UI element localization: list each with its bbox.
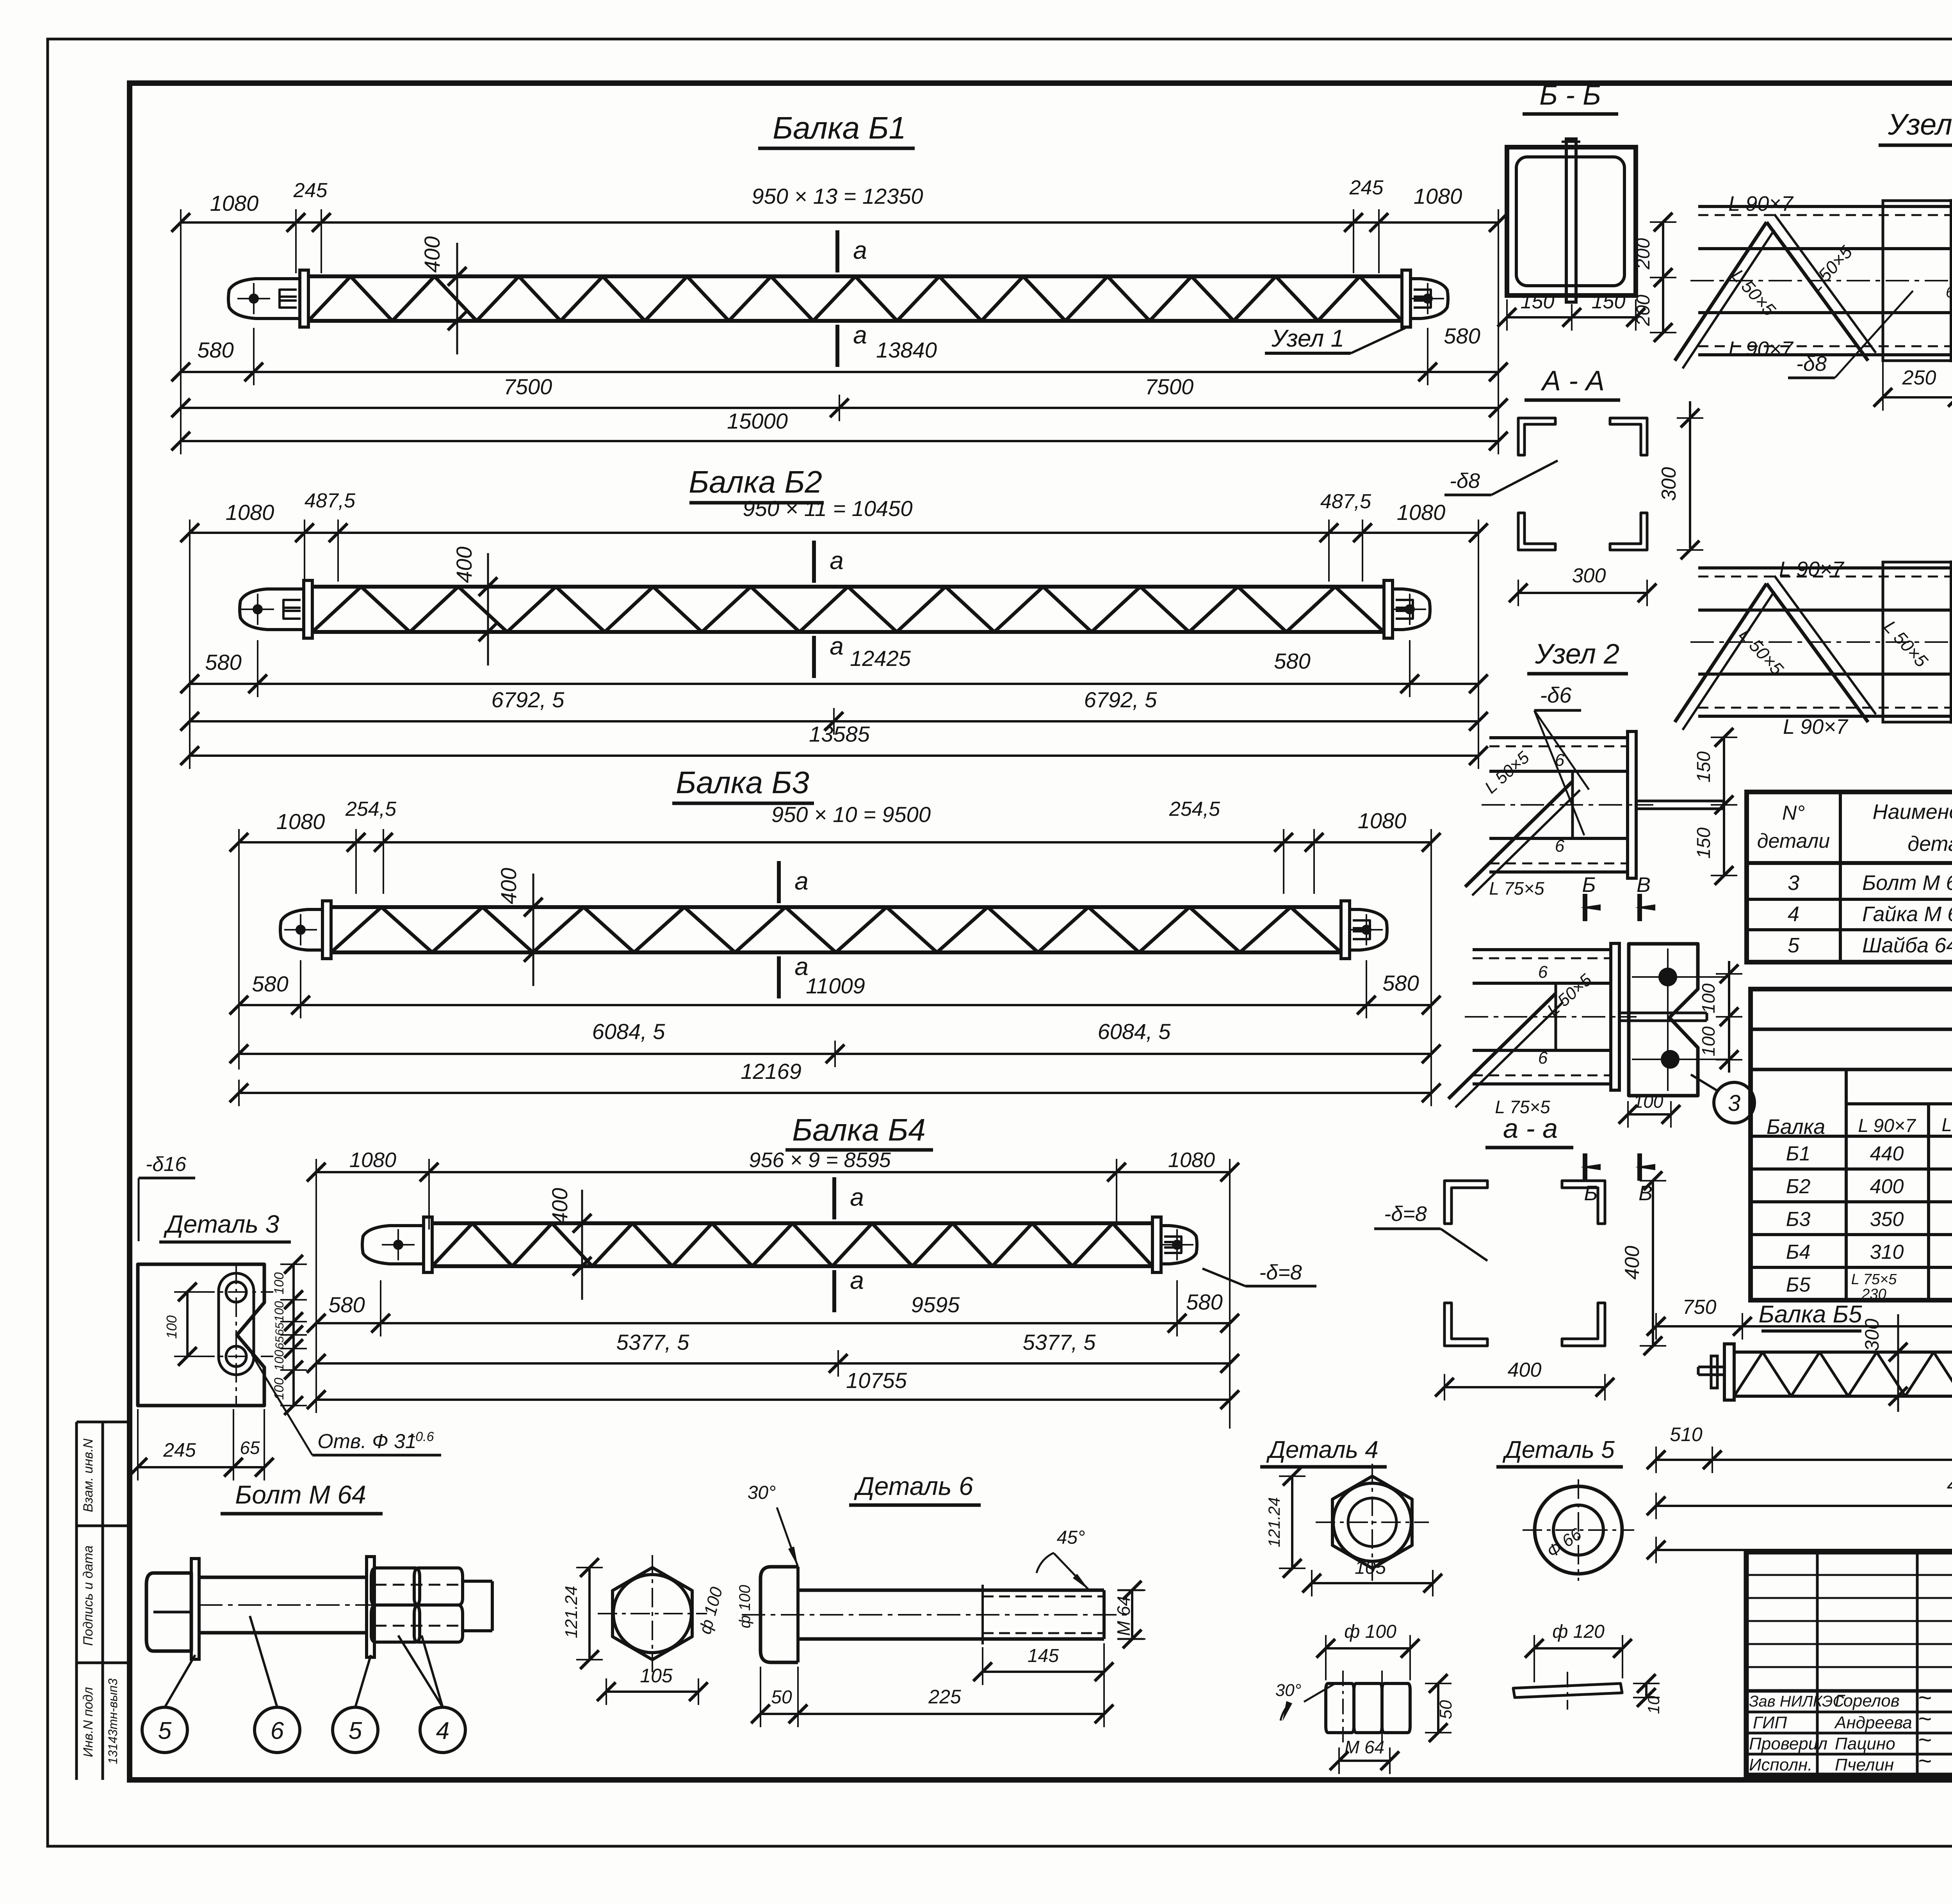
svg-text:a: a [794, 867, 809, 895]
svg-text:956 × 9 = 8595: 956 × 9 = 8595 [749, 1148, 891, 1172]
svg-text:400: 400 [1508, 1359, 1542, 1381]
section Б-Б dims 150 150 [1498, 290, 1645, 331]
detail Узел 2 upper node view [1465, 728, 1737, 899]
svg-text:510: 510 [1670, 1424, 1703, 1445]
beam B1 section marks a-a [837, 230, 867, 367]
svg-text:200: 200 [1633, 295, 1654, 326]
svg-text:Наименование: Наименование [1873, 800, 1952, 824]
svg-text:50: 50 [1436, 1700, 1455, 1719]
section А-А view (channel square 300) [1518, 418, 1647, 550]
svg-text:Б: Б [1582, 873, 1596, 897]
svg-text:a: a [850, 1183, 864, 1211]
label -δ6 with leaders [1534, 683, 1589, 835]
svg-text:a: a [850, 1266, 864, 1294]
svg-text:Балка: Балка [1767, 1115, 1826, 1139]
label -δ16 [139, 1153, 195, 1241]
beam B1 truss [308, 276, 1402, 321]
svg-text:L 90×7: L 90×7 [1728, 337, 1794, 361]
svg-text:200: 200 [1633, 238, 1654, 270]
svg-text:В: В [1637, 873, 1651, 897]
svg-text:4: 4 [436, 1717, 449, 1744]
svg-text:6: 6 [1946, 284, 1952, 301]
svg-text:487,5: 487,5 [305, 489, 356, 512]
svg-text:30°: 30° [1275, 1681, 1302, 1700]
label -δ8 for А-А with leader [1444, 461, 1558, 495]
svg-text:N°: N° [1782, 802, 1805, 824]
section А-А dims 300 [1509, 401, 1703, 606]
svg-text:6: 6 [1538, 1048, 1548, 1068]
beam B3 left end node [280, 901, 331, 959]
svg-text:Б3: Б3 [1786, 1208, 1811, 1231]
section А-А title [1525, 365, 1620, 400]
svg-text:Деталь 5: Деталь 5 [1502, 1436, 1615, 1463]
svg-text:Б: Б [1584, 1182, 1598, 1205]
svg-text:580: 580 [1274, 649, 1310, 673]
svg-text:Б - Б: Б - Б [1539, 80, 1601, 111]
detail 6 bolt side view [742, 1567, 1128, 1662]
svg-text:6: 6 [271, 1717, 284, 1744]
title Болт М64 [221, 1480, 383, 1514]
svg-text:100: 100 [272, 1378, 287, 1400]
dims 400 400 [1435, 1171, 1666, 1400]
dims 100 100 for lower node [1619, 961, 1742, 1128]
detail Деталь 6 title [849, 1472, 981, 1505]
balloon 3 with leader [1691, 1075, 1754, 1123]
parts table header text [1757, 797, 1952, 857]
detail node 2 assembly view [1675, 562, 1952, 730]
beam B2 left end node [240, 580, 312, 638]
svg-text:121.24: 121.24 [1265, 1497, 1283, 1547]
label -δ=8 for B4 end plate [1202, 1261, 1316, 1286]
detail Деталь 3 title [159, 1210, 291, 1242]
svg-text:-δ6: -δ6 [1540, 683, 1572, 707]
svg-text:L 75×5: L 75×5 [1851, 1271, 1897, 1288]
svg-text:100: 100 [1698, 1026, 1719, 1056]
svg-text:Болт М 64 × 22.5: Болт М 64 × 22.5 [1862, 871, 1952, 895]
svg-text:105: 105 [640, 1665, 673, 1687]
metal table rows text [1786, 1142, 1952, 1303]
title Балка Б2 [689, 464, 824, 503]
svg-text:245: 245 [1349, 176, 1384, 199]
svg-text:ГИП: ГИП [1753, 1713, 1787, 1732]
beam B5 lower dimension lines [1647, 1424, 1952, 1563]
svg-text:310: 310 [1870, 1241, 1904, 1263]
svg-text:400: 400 [420, 236, 444, 272]
svg-text:Деталь 4: Деталь 4 [1266, 1436, 1378, 1463]
svg-text:65: 65 [273, 1322, 286, 1336]
svg-text:Б4: Б4 [1786, 1241, 1811, 1263]
svg-text:487,5: 487,5 [1320, 490, 1371, 513]
beam B4 right end node [1152, 1217, 1197, 1272]
svg-text:4669, 5: 4669, 5 [1947, 1473, 1952, 1497]
svg-text:6084, 5: 6084, 5 [592, 1019, 666, 1044]
Узел 1 labels [1728, 192, 1952, 378]
title block signature rows [1749, 1685, 1952, 1774]
svg-text:350: 350 [1870, 1208, 1904, 1231]
beam B1 dim 400 [420, 236, 467, 354]
metal table header text [1767, 998, 1952, 1139]
beam B5 left end with bolt [1698, 1344, 1734, 1400]
svg-text:13143тн-вып3: 13143тн-вып3 [106, 1678, 120, 1764]
svg-text:5: 5 [1788, 934, 1800, 957]
svg-text:5377, 5: 5377, 5 [1023, 1330, 1096, 1354]
detail 6 side view dims [736, 1482, 1145, 1727]
svg-text:Деталь 6: Деталь 6 [853, 1472, 973, 1500]
svg-text:12169: 12169 [741, 1059, 801, 1084]
parts list table [1747, 792, 1952, 962]
svg-text:150: 150 [1592, 290, 1626, 313]
svg-text:580: 580 [252, 972, 288, 996]
svg-text:400: 400 [1870, 1175, 1904, 1198]
svg-text:10755: 10755 [846, 1368, 907, 1393]
svg-text:Гайка М 64: Гайка М 64 [1862, 902, 1952, 926]
svg-text:580: 580 [1186, 1290, 1222, 1314]
svg-text:Б2: Б2 [1786, 1175, 1811, 1198]
svg-text:-δ=8: -δ=8 [1259, 1261, 1302, 1284]
svg-text:300: 300 [1572, 564, 1606, 587]
beam B3 section marks a-a [779, 861, 809, 998]
svg-text:7500: 7500 [1145, 374, 1194, 399]
svg-text:a: a [830, 546, 844, 575]
section Б-Б view [1507, 139, 1636, 302]
svg-text:150: 150 [1694, 751, 1714, 783]
svg-text:А - А: А - А [1541, 365, 1605, 397]
node 2 labels [1735, 557, 1952, 738]
beam B4 dim 400 [547, 1188, 591, 1300]
svg-text:М 64: М 64 [1113, 1596, 1134, 1636]
svg-text:950 × 11 = 10450: 950 × 11 = 10450 [743, 496, 913, 521]
beam B2 top dimension line [180, 489, 1488, 757]
svg-text:Отв. Ф 31: Отв. Ф 31 [317, 1430, 416, 1453]
svg-text:400: 400 [496, 868, 521, 904]
svg-text:ф 100: ф 100 [1344, 1621, 1396, 1642]
svg-text:580: 580 [205, 650, 241, 674]
svg-text:1080: 1080 [1414, 184, 1462, 208]
svg-text:Пацино: Пацино [1835, 1734, 1895, 1753]
title block frame [1746, 1552, 1952, 1775]
svg-text:1080: 1080 [276, 809, 325, 834]
svg-text:580: 580 [197, 338, 233, 362]
svg-text:6: 6 [1555, 836, 1565, 856]
svg-text:Исполн.: Исполн. [1749, 1755, 1812, 1774]
parts table rows text [1788, 871, 1952, 957]
svg-text:400: 400 [547, 1188, 572, 1224]
title Балка Б1 [758, 110, 915, 148]
beam B2 lower dimension lines [180, 640, 1488, 769]
svg-text:L 90×7: L 90×7 [1728, 192, 1794, 215]
svg-text:1080: 1080 [1397, 500, 1446, 525]
svg-text:L 50×5: L 50×5 [1941, 1115, 1952, 1135]
svg-text:4: 4 [1788, 902, 1799, 926]
bolt assembly balloons 5 6 5 4 [142, 1616, 465, 1753]
detail 5 washer side view [1513, 1672, 1622, 1710]
detail Узел 1 title [1879, 108, 1952, 145]
svg-text:245: 245 [163, 1439, 196, 1461]
svg-text:10: 10 [1644, 1696, 1663, 1714]
svg-text:Балка Б3: Балка Б3 [676, 765, 809, 800]
svg-text:5: 5 [349, 1717, 362, 1744]
beam B1 right end node [1402, 270, 1448, 327]
section marks Б and В around а-а [1580, 873, 1655, 1205]
svg-text:детали: детали [1757, 830, 1830, 852]
svg-text:65: 65 [240, 1438, 260, 1458]
beam B2 truss [312, 587, 1384, 632]
svg-text:13840: 13840 [876, 338, 937, 362]
section square 400x400 [1444, 1181, 1605, 1346]
svg-text:245: 245 [293, 179, 328, 202]
detail 5 washer top view [1523, 1479, 1634, 1581]
svg-text:9595: 9595 [911, 1292, 960, 1317]
detail 4 side view dims [1275, 1621, 1455, 1774]
svg-text:100: 100 [1633, 1091, 1663, 1112]
title Балка Б5 [1759, 1301, 1862, 1331]
svg-text:3: 3 [1788, 871, 1799, 895]
svg-text:L 75×5: L 75×5 [1489, 878, 1544, 899]
beam B5 dim 300 [1861, 1314, 1907, 1412]
svg-text:6084, 5: 6084, 5 [1098, 1019, 1171, 1044]
beam B1 left end node [228, 270, 308, 327]
svg-text:Узел 1: Узел 1 [1271, 325, 1344, 352]
svg-text:детали: детали [1907, 832, 1952, 856]
svg-text:a: a [853, 321, 867, 349]
svg-text:а - а: а - а [1503, 1113, 1558, 1144]
svg-text:100: 100 [272, 1350, 286, 1371]
svg-text:a: a [853, 236, 867, 264]
beam B4 lower dimension lines [307, 1280, 1239, 1413]
svg-text:950 × 13 = 12350: 950 × 13 = 12350 [752, 184, 923, 208]
beam B3 truss [331, 907, 1341, 952]
svg-text:Болт М 64: Болт М 64 [235, 1480, 366, 1509]
svg-text:225: 225 [928, 1686, 961, 1708]
detail 5 dims [1525, 1621, 1663, 1714]
svg-text:ф 100: ф 100 [736, 1585, 753, 1628]
label Узел 1 with leader [1265, 325, 1405, 353]
beam B3 lower dimension lines [230, 960, 1441, 1106]
metal take-off table Выборка металла [1751, 989, 1952, 1300]
beam B2 dim 400 [452, 546, 497, 666]
svg-text:254,5: 254,5 [1169, 798, 1220, 820]
beam B3 right end node [1341, 901, 1387, 959]
beam B2 section marks a-a [814, 541, 844, 678]
beam B4 left end node [362, 1217, 432, 1272]
title Балка Б3 [672, 765, 814, 803]
svg-text:Подпись и дата: Подпись и дата [81, 1545, 96, 1646]
beam B1 lower dimension lines [171, 324, 1508, 454]
svg-text:Шайба 64: Шайба 64 [1862, 934, 1952, 957]
svg-text:100: 100 [164, 1315, 180, 1339]
svg-text:150: 150 [1521, 290, 1555, 313]
svg-text:50: 50 [771, 1687, 792, 1708]
svg-text:1080: 1080 [226, 500, 274, 525]
svg-text:30°: 30° [748, 1482, 776, 1503]
beam B2 right end node [1384, 580, 1430, 638]
svg-text:-δ16: -δ16 [146, 1153, 186, 1176]
svg-text:100: 100 [1698, 983, 1719, 1013]
svg-text:65: 65 [273, 1336, 286, 1349]
detail Деталь 5 title [1496, 1436, 1623, 1467]
svg-text:105: 105 [1355, 1557, 1386, 1578]
svg-text:580: 580 [1382, 971, 1419, 995]
svg-text:6: 6 [1538, 963, 1548, 982]
detail 4 nut top view [1316, 1464, 1429, 1581]
detail Узел 2 title [1527, 639, 1628, 674]
label -δ=8 for square with leader [1374, 1202, 1487, 1261]
svg-text:Балка Б2: Балка Б2 [689, 464, 822, 499]
beam B3 dim 400 [496, 868, 543, 986]
svg-text:300: 300 [1658, 467, 1680, 501]
svg-text:Узел 2: Узел 2 [1535, 639, 1619, 670]
svg-text:750: 750 [1683, 1296, 1717, 1319]
svg-text:100: 100 [272, 1272, 287, 1295]
svg-text:1080: 1080 [1358, 808, 1407, 833]
beam B4 truss [432, 1223, 1152, 1266]
svg-text:400: 400 [1621, 1246, 1644, 1280]
svg-text:Б1: Б1 [1786, 1142, 1811, 1165]
detail 3 bottom dims 245 65 [128, 1409, 274, 1480]
svg-text:L 90×7: L 90×7 [1779, 557, 1845, 581]
svg-text:254,5: 254,5 [345, 798, 397, 820]
section Б-Б title [1523, 80, 1618, 114]
svg-text:-δ8: -δ8 [1796, 352, 1827, 375]
svg-text:580: 580 [328, 1292, 365, 1317]
svg-text:11009: 11009 [806, 973, 865, 998]
svg-text:230: 230 [1861, 1286, 1886, 1303]
svg-text:15000: 15000 [727, 409, 788, 433]
beam B1 top dimension line [171, 176, 1508, 445]
label Отв Ф31 [252, 1354, 441, 1455]
beam B5 truss [1734, 1352, 1952, 1396]
detail 3 right dim stack [164, 1255, 307, 1415]
svg-text:М 64: М 64 [1345, 1737, 1384, 1757]
svg-text:Андреева: Андреева [1834, 1713, 1912, 1732]
svg-text:Горелов: Горелов [1835, 1691, 1900, 1710]
svg-text:6792, 5: 6792, 5 [492, 687, 565, 712]
svg-text:300: 300 [1861, 1319, 1883, 1351]
svg-text:6792, 5: 6792, 5 [1084, 687, 1158, 712]
detail 6 hex dims [562, 1558, 727, 1705]
svg-text:ф 120: ф 120 [1552, 1621, 1605, 1642]
svg-text:12425: 12425 [850, 646, 911, 671]
svg-text:a: a [830, 632, 844, 660]
svg-text:Зав НИЛКЭС: Зав НИЛКЭС [1749, 1693, 1845, 1710]
svg-text:Балка Б1: Балка Б1 [773, 110, 906, 145]
svg-text:Балка Б4: Балка Б4 [792, 1112, 926, 1147]
svg-text:+0.6: +0.6 [408, 1429, 434, 1444]
svg-text:Б5: Б5 [1786, 1274, 1811, 1296]
svg-text:6: 6 [1555, 751, 1565, 770]
svg-text:100: 100 [272, 1301, 286, 1322]
detail Узел 1 node view [1675, 201, 1952, 368]
detail 3 plate view [138, 1264, 273, 1406]
svg-text:~: ~ [1918, 1748, 1931, 1774]
svg-text:580: 580 [1444, 324, 1480, 348]
svg-text:145: 145 [1028, 1646, 1059, 1666]
svg-text:L 90×7: L 90×7 [1783, 715, 1849, 738]
Узел 1 dims 200 200 [1633, 213, 1676, 342]
svg-text:5377, 5: 5377, 5 [616, 1330, 690, 1354]
svg-text:150: 150 [1694, 827, 1714, 859]
svg-text:250: 250 [1902, 367, 1936, 389]
svg-text:13585: 13585 [809, 722, 870, 746]
detail 4 nut side view [1326, 1671, 1410, 1745]
left column strip [77, 1422, 130, 1780]
svg-text:7500: 7500 [504, 374, 552, 399]
svg-text:45°: 45° [1057, 1527, 1085, 1548]
beam B4 top dimension line [307, 1148, 1239, 1429]
bolt M64 assembly view [146, 1557, 492, 1659]
title Балка Б4 [785, 1112, 933, 1150]
svg-text:950 × 10 = 9500: 950 × 10 = 9500 [771, 802, 931, 827]
svg-text:Инв.N подл: Инв.N подл [81, 1687, 96, 1757]
svg-text:Деталь 3: Деталь 3 [164, 1210, 280, 1238]
Узел 1 dims 250 50 [1874, 347, 1952, 411]
svg-text:Балка Б5: Балка Б5 [1759, 1301, 1862, 1328]
detail Деталь 4 title [1260, 1436, 1387, 1467]
svg-text:L 90×7: L 90×7 [1858, 1116, 1916, 1136]
svg-text:3: 3 [1728, 1091, 1740, 1116]
svg-text:440: 440 [1870, 1142, 1904, 1165]
svg-text:Пчелин: Пчелин [1835, 1755, 1894, 1774]
svg-text:-δ8: -δ8 [1450, 469, 1480, 493]
svg-text:121.24: 121.24 [562, 1586, 581, 1639]
beam B3 top dimension line [230, 798, 1441, 1093]
beam B5 top dimension [1647, 1296, 1952, 1340]
svg-text:Взам. инв.N: Взам. инв.N [81, 1438, 96, 1512]
svg-text:5: 5 [158, 1717, 172, 1744]
detail 6 hex head front view [598, 1555, 707, 1672]
detail Узел 2 lower node view (а-а) [1448, 943, 1729, 1117]
svg-text:400: 400 [452, 546, 476, 583]
section а-а title [1485, 1113, 1573, 1148]
svg-text:-δ=8: -δ=8 [1384, 1202, 1427, 1226]
svg-text:Проверил: Проверил [1749, 1734, 1827, 1753]
svg-text:1080: 1080 [349, 1148, 396, 1172]
beam B4 section marks a-a [834, 1177, 864, 1312]
svg-text:1080: 1080 [1168, 1148, 1215, 1172]
detail 4 top view dims [1265, 1467, 1442, 1596]
svg-text:1080: 1080 [210, 191, 259, 215]
svg-text:Узел 1: Узел 1 [1888, 108, 1952, 141]
